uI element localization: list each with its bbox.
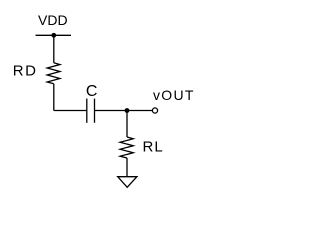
label vOUT (153, 87, 195, 103)
ground (118, 177, 137, 188)
svg-text:VDD: VDD (38, 12, 68, 28)
label VDD (38, 12, 68, 28)
resistor RD (47, 63, 60, 84)
label RL (143, 138, 164, 155)
wire RD bottom to corner (53, 84, 55, 111)
svg-text:RD: RD (13, 62, 38, 79)
capacitor C (87, 99, 95, 123)
wire junction to vOUT terminal (127, 110, 152, 112)
junction dot node vOUT (125, 108, 130, 113)
svg-text:C: C (86, 83, 98, 100)
resistor RL (120, 137, 133, 158)
node vOUT open terminal (152, 108, 157, 113)
wire VDD to RD top (53, 35, 55, 63)
power rail VDD bar (36, 34, 72, 36)
wire RL bottom to ground (126, 158, 128, 177)
label RD (13, 62, 38, 79)
svg-text:RL: RL (143, 138, 164, 155)
wire corner to capacitor left plate (54, 110, 87, 112)
svg-text:vOUT: vOUT (153, 87, 195, 103)
junction dot on VDD rail (51, 33, 56, 38)
label C (86, 83, 98, 100)
wire junction to RL top (126, 111, 128, 138)
wire capacitor right plate to junction (95, 110, 128, 112)
